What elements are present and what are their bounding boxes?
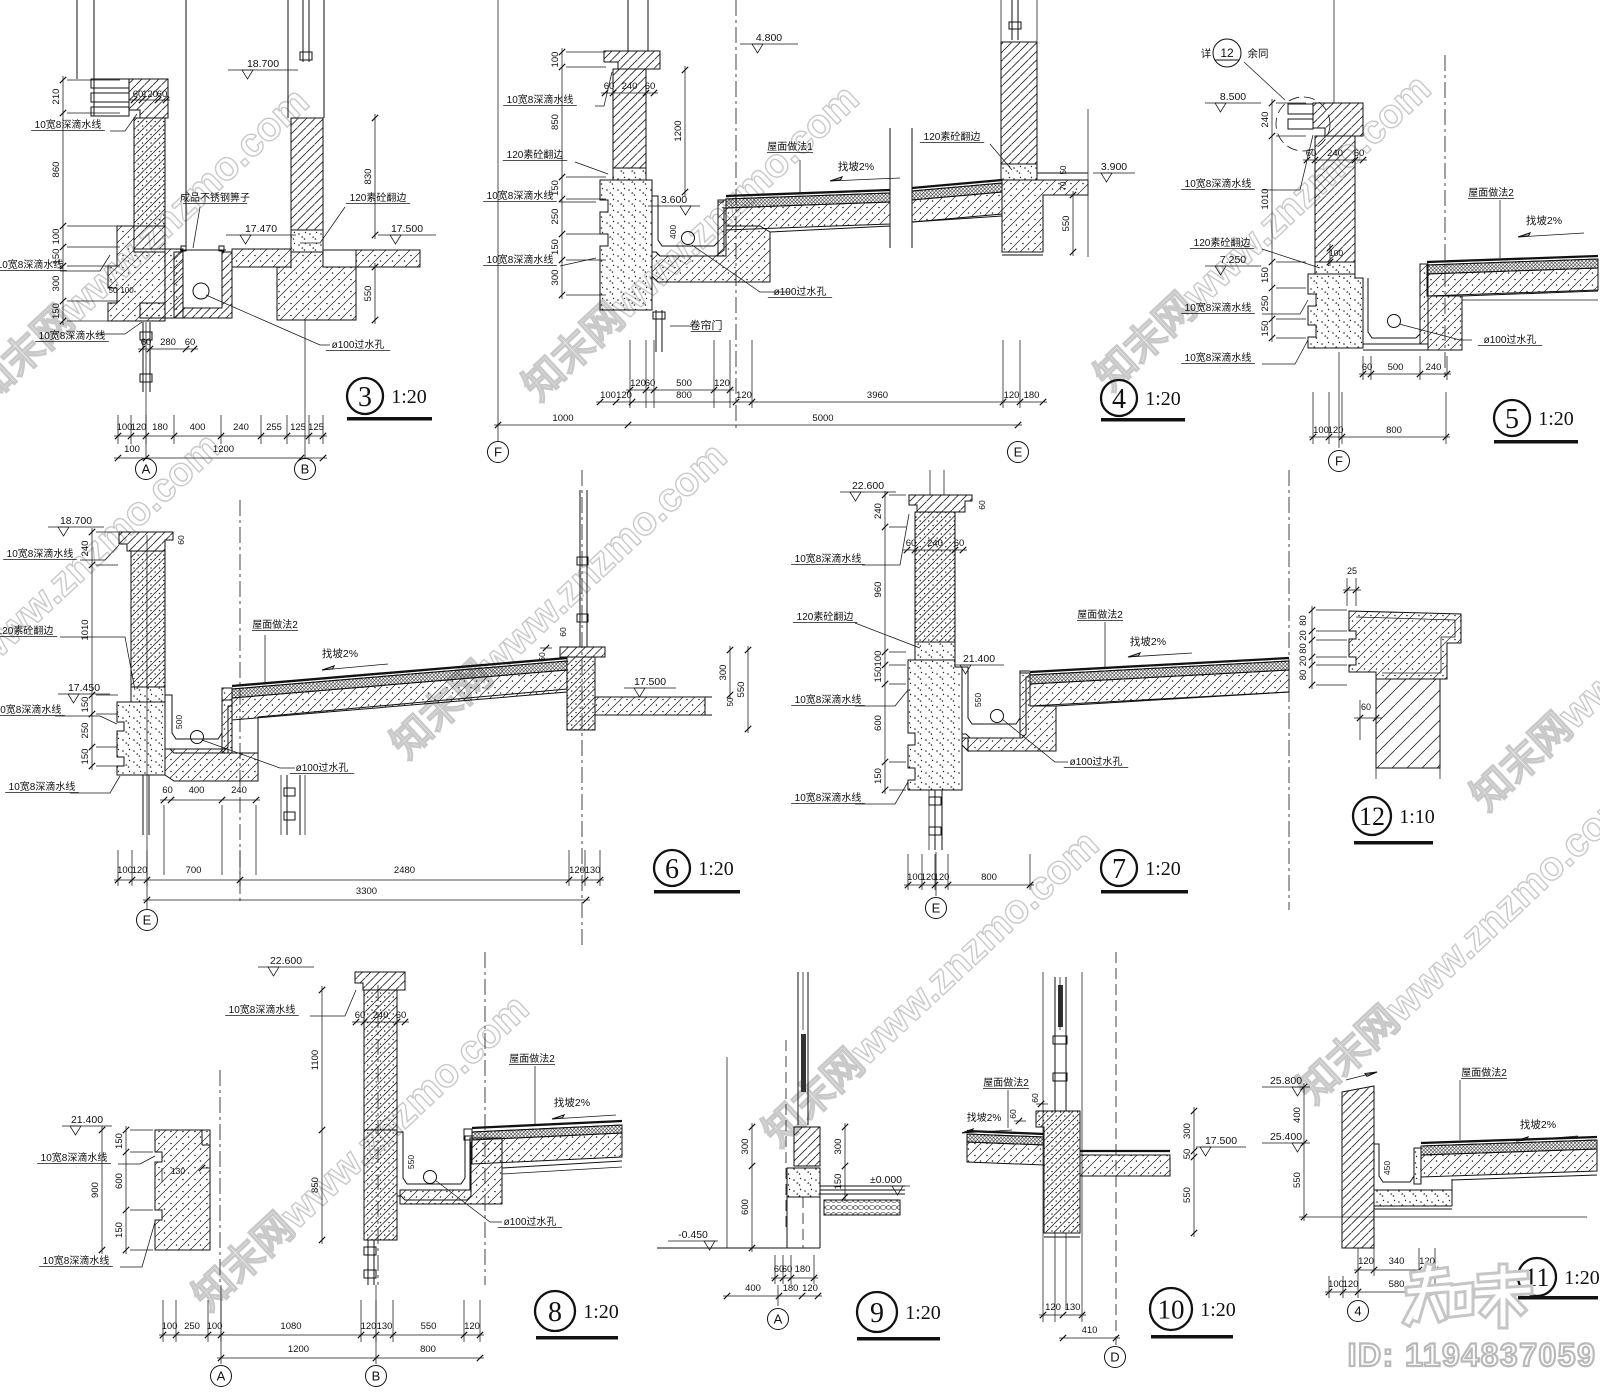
svg-text:600: 600 (873, 715, 884, 731)
parapet coping detail4 (604, 51, 660, 69)
svg-text:400: 400 (190, 422, 206, 433)
right dims d10 (1193, 1107, 1195, 1237)
svg-text:130: 130 (585, 865, 601, 876)
svg-text:10宽8深滴水线: 10宽8深滴水线 (35, 118, 102, 131)
svg-text:A: A (142, 462, 151, 477)
roof slab left part detail4 (726, 190, 890, 196)
svg-text:550: 550 (363, 286, 374, 302)
leader 10宽8深滴水线 detail4 top (595, 72, 612, 106)
svg-text:150: 150 (114, 1133, 125, 1149)
svg-text:120: 120 (630, 378, 646, 389)
svg-text:3960: 3960 (867, 390, 888, 401)
right dims d6 (729, 646, 731, 699)
window mullion above right wall (1011, 0, 1013, 40)
svg-text:240: 240 (873, 503, 884, 519)
svg-text:10宽8深滴水线: 10宽8深滴水线 (1185, 351, 1252, 364)
rolling door rail (655, 310, 657, 352)
svg-text:340: 340 (1389, 1256, 1405, 1267)
svg-text:240: 240 (1426, 362, 1442, 373)
svg-text:400: 400 (745, 1283, 761, 1294)
parapet wall detail3 (134, 118, 165, 226)
axis A d9 (777, 1285, 779, 1306)
svg-text:60: 60 (185, 337, 196, 348)
slab block at gutter (652, 226, 770, 282)
svg-text:21.400: 21.400 (71, 1114, 103, 1126)
svg-text:70: 70 (1059, 181, 1068, 190)
svg-text:18.700: 18.700 (60, 515, 92, 527)
svg-text:F: F (494, 445, 502, 460)
svg-text:120素砼翻边: 120素砼翻边 (0, 624, 53, 637)
svg-text:10宽8深滴水线: 10宽8深滴水线 (795, 552, 862, 565)
svg-text:1:20: 1:20 (1145, 858, 1181, 880)
svg-text:580: 580 (1389, 1279, 1405, 1290)
svg-text:900: 900 (90, 1182, 101, 1198)
svg-text:800: 800 (1386, 425, 1402, 436)
wall d6 (131, 551, 165, 687)
svg-text:50: 50 (726, 697, 735, 706)
left dim chain d6 (91, 528, 93, 770)
detail bubble 6 (654, 850, 690, 886)
svg-text:400: 400 (1292, 1107, 1303, 1123)
detail 3 view (0, 0, 436, 480)
detail bubble 7 (1101, 850, 1137, 886)
svg-text:550: 550 (406, 1155, 416, 1169)
dashed axis d10 (1115, 952, 1117, 1345)
svg-text:100: 100 (550, 52, 561, 68)
right parapet d6 (579, 490, 581, 647)
wall B lower + L block (277, 252, 356, 320)
svg-text:300: 300 (833, 1139, 844, 1155)
svg-text:120: 120 (361, 1321, 377, 1332)
svg-text:120素砼翻边: 120素砼翻边 (350, 191, 407, 204)
svg-text:60: 60 (645, 378, 656, 389)
120素砼翻边 left leader (575, 162, 608, 174)
svg-text:240: 240 (233, 422, 249, 433)
detail bubble 3 (347, 378, 383, 414)
svg-text:800: 800 (676, 390, 692, 401)
svg-text:10宽8深滴水线: 10宽8深滴水线 (39, 329, 106, 342)
svg-text:100: 100 (1329, 248, 1343, 258)
svg-text:850: 850 (310, 1177, 321, 1193)
svg-text:240: 240 (622, 81, 638, 92)
znzmo logo 知末 (1408, 1268, 1528, 1324)
svg-text:600: 600 (740, 1199, 751, 1215)
soffit line d5 (1462, 299, 1598, 301)
right slab d6 (595, 697, 705, 715)
svg-text:1200: 1200 (213, 444, 234, 455)
svg-text:800: 800 (981, 872, 997, 883)
svg-text:150: 150 (80, 749, 91, 765)
svg-text:1:20: 1:20 (698, 858, 734, 880)
small dim 60 120 60 top (130, 99, 170, 101)
svg-text:120素砼翻边: 120素砼翻边 (1194, 236, 1251, 249)
svg-text:800: 800 (420, 1344, 436, 1355)
svg-text:60: 60 (162, 785, 173, 796)
svg-text:550: 550 (973, 693, 983, 707)
left dim chain d7 (884, 491, 886, 794)
svg-text:60: 60 (396, 1010, 407, 1021)
dims bottom d7 (907, 854, 909, 890)
svg-text:100: 100 (120, 286, 134, 295)
svg-text:17.470: 17.470 (245, 223, 277, 235)
svg-text:80: 80 (1298, 670, 1309, 681)
svg-text:10宽8深滴水线: 10宽8深滴水线 (1185, 177, 1252, 190)
svg-text:60: 60 (645, 81, 656, 92)
svg-text:12: 12 (1359, 802, 1385, 831)
parapet coping detail5 (1313, 103, 1363, 136)
dash-dot centerline (735, 0, 737, 430)
leader 滴水线 d8 top (310, 990, 356, 1016)
svg-text:10宽8深滴水线: 10宽8深滴水线 (507, 93, 574, 106)
svg-text:180: 180 (152, 422, 168, 433)
lower wall d6 (117, 702, 165, 775)
svg-text:10宽8深滴水线: 10宽8深滴水线 (487, 189, 554, 202)
svg-text:400: 400 (668, 225, 678, 239)
cornice right lip d12 (1446, 643, 1448, 679)
dashed verticals d8 (219, 1070, 221, 1285)
svg-text:10宽8深滴水线: 10宽8深滴水线 (41, 1151, 108, 1164)
svg-text:5: 5 (1505, 404, 1519, 435)
svg-text:60: 60 (977, 500, 987, 510)
svg-text:700: 700 (186, 865, 202, 876)
floor slab d9 (820, 1185, 905, 1187)
axis E d7 (935, 852, 937, 896)
svg-text:130: 130 (171, 1166, 185, 1176)
svg-text:500: 500 (174, 715, 184, 729)
svg-text:100: 100 (1328, 1279, 1344, 1290)
leader ø100过水孔 (206, 295, 330, 345)
leader 成品不锈钢箅子 (193, 207, 200, 248)
svg-text:120: 120 (616, 390, 632, 401)
svg-text:120: 120 (802, 1283, 818, 1294)
svg-text:80: 80 (1298, 615, 1309, 626)
svg-text:4: 4 (1354, 1304, 1361, 1319)
roof slab d6 (232, 658, 567, 686)
svg-text:60: 60 (1030, 1093, 1040, 1103)
leader 10宽8深滴水线 bottom (95, 322, 142, 334)
bottom dim row1 detail3 (117, 415, 119, 444)
svg-text:120素砼翻边: 120素砼翻边 (507, 148, 564, 161)
svg-text:1:20: 1:20 (1564, 1267, 1600, 1289)
svg-text:120素砼翻边: 120素砼翻边 (924, 130, 981, 143)
leaders d7 (862, 514, 909, 565)
outer verticals d10 (1042, 972, 1044, 1111)
屋面做法2 d11 (1459, 1080, 1461, 1140)
svg-text:60: 60 (1306, 148, 1317, 159)
svg-text:240: 240 (1260, 112, 1271, 128)
bottom dims d9 (774, 1255, 776, 1284)
axis line + bubble F d5 (1338, 352, 1340, 448)
svg-text:10宽8深滴水线: 10宽8深滴水线 (7, 547, 74, 560)
svg-text:280: 280 (160, 337, 176, 348)
svg-text:7: 7 (1112, 854, 1126, 885)
weep hole circle detail3 (193, 283, 209, 299)
svg-text:5000: 5000 (812, 413, 833, 424)
svg-text:E: E (143, 913, 152, 928)
coping d7 (909, 495, 972, 512)
svg-text:1:20: 1:20 (583, 1301, 619, 1323)
small dim 60 240 60 top4 (601, 92, 658, 94)
svg-text:1010: 1010 (1260, 188, 1271, 209)
parapet coping detail3 (129, 79, 168, 118)
svg-text:550: 550 (1182, 1187, 1193, 1203)
svg-text:125: 125 (290, 422, 306, 433)
svg-text:找坡2%: 找坡2% (967, 1111, 1002, 1124)
roof slab right part detail4 (912, 180, 1002, 188)
svg-text:1:20: 1:20 (1200, 1299, 1236, 1321)
lower wall w/ drip notches detail3 (134, 226, 165, 249)
cornice slab d12 (1349, 611, 1461, 679)
axis line A upper verticals (76, 0, 78, 79)
floor slab right of wall E (1002, 180, 1088, 252)
svg-text:150: 150 (114, 1222, 125, 1238)
svg-text:成品不锈钢箅子: 成品不锈钢箅子 (180, 191, 250, 204)
roof slab d5 (1427, 256, 1598, 262)
屋面做法2 d10 (1007, 1090, 1009, 1128)
dim 1200 vertical (684, 66, 686, 196)
left dim chain detail3 (62, 76, 64, 325)
svg-text:150: 150 (873, 667, 884, 683)
dashed line d9 (785, 1040, 787, 1230)
slab bottom step left (770, 226, 890, 232)
svg-text:150: 150 (550, 239, 561, 255)
hatched column d9 (794, 1127, 820, 1166)
slab right of wall B (356, 250, 420, 267)
leader ø100过水孔 detail4 (692, 245, 790, 292)
svg-text:ø100过水孔: ø100过水孔 (332, 338, 385, 351)
gutter channel detail4 (652, 196, 724, 246)
leader 10宽8深滴水线 top (110, 114, 137, 131)
svg-text:250: 250 (80, 723, 91, 739)
gutter channel d5 (1368, 278, 1420, 338)
svg-text:130: 130 (377, 1321, 393, 1332)
svg-text:450: 450 (1382, 1161, 1392, 1175)
detail bubble 12 (1353, 797, 1391, 835)
wall top verticals d7 (929, 470, 931, 495)
svg-text:20: 20 (1298, 630, 1309, 641)
svg-text:10宽8深滴水线: 10宽8深滴水线 (795, 791, 862, 804)
ø100过水孔 d7 (1002, 719, 1068, 762)
svg-text:120: 120 (1004, 390, 1020, 401)
long thin soffit line d11 (1299, 1216, 1587, 1218)
bottom dims d11 (1357, 1248, 1359, 1276)
detail 9 view (657, 972, 941, 1341)
svg-text:240: 240 (927, 538, 943, 549)
svg-text:100: 100 (1313, 425, 1329, 436)
pit walls + floor (174, 252, 232, 318)
svg-text:60: 60 (157, 89, 168, 100)
small dim 60 280 60 bottom (138, 348, 198, 350)
axis E bubble d4 (1008, 442, 1029, 463)
svg-text:6: 6 (665, 854, 679, 885)
svg-text:50: 50 (1182, 1149, 1193, 1160)
svg-text:25.800: 25.800 (1270, 1075, 1302, 1087)
bottom dim row2 detail3 (114, 457, 327, 459)
pit grate 成品不锈钢箅子 (180, 249, 226, 251)
svg-text:850: 850 (550, 114, 561, 130)
outer vertical + ground d9 (726, 1057, 728, 1248)
svg-text:240: 240 (373, 1010, 389, 1021)
svg-text:±0.000: ±0.000 (870, 1174, 902, 1186)
wall d7 (915, 512, 955, 642)
ø100过水孔 d8 (435, 1180, 502, 1222)
svg-text:60: 60 (558, 627, 568, 637)
svg-text:125: 125 (308, 422, 324, 433)
axis F line (497, 0, 499, 442)
svg-text:180: 180 (783, 1283, 799, 1294)
svg-text:240: 240 (1327, 148, 1343, 159)
svg-text:100: 100 (162, 1321, 178, 1332)
svg-text:120素砼翻边: 120素砼翻边 (797, 610, 854, 623)
svg-text:F: F (1335, 454, 1343, 469)
svg-text:10宽8深滴水线: 10宽8深滴水线 (487, 253, 554, 266)
mullion below d8 (367, 1240, 369, 1285)
svg-text:ø100过水孔: ø100过水孔 (296, 761, 349, 774)
gutter d8 (397, 1132, 472, 1184)
svg-text:100: 100 (600, 390, 616, 401)
svg-text:180: 180 (795, 1264, 811, 1275)
dims d9 (751, 1123, 753, 1252)
inner notch low wall (201, 1130, 203, 1145)
svg-text:10宽8深滴水线: 10宽8深滴水线 (229, 1003, 296, 1016)
svg-text:60: 60 (782, 1264, 793, 1275)
floor slab right d10 (1080, 1150, 1170, 1152)
svg-text:D: D (1110, 1350, 1119, 1365)
concrete block d9 (787, 1168, 820, 1197)
svg-text:120: 120 (1045, 1302, 1061, 1313)
wall d11 (1342, 1086, 1374, 1248)
svg-text:300: 300 (51, 276, 62, 292)
svg-text:10宽8深滴水线: 10宽8深滴水线 (1185, 301, 1252, 314)
svg-text:150: 150 (51, 303, 62, 319)
detail 8 view (37, 952, 622, 1387)
svg-text:4: 4 (1112, 384, 1126, 415)
svg-text:60: 60 (1354, 148, 1365, 159)
svg-text:找坡2%: 找坡2% (1526, 214, 1562, 227)
svg-text:120: 120 (714, 378, 730, 389)
coping d6 (119, 532, 173, 551)
svg-text:1200: 1200 (673, 120, 684, 141)
svg-text:60: 60 (1008, 1109, 1018, 1119)
svg-text:100: 100 (51, 229, 62, 245)
svg-text:150: 150 (833, 1174, 844, 1190)
svg-text:120: 120 (569, 865, 585, 876)
svg-text:1010: 1010 (80, 619, 91, 640)
svg-text:找坡2%: 找坡2% (322, 647, 358, 660)
leader 10宽8深滴水线 mid (60, 255, 110, 271)
svg-text:1:20: 1:20 (1145, 388, 1181, 410)
svg-text:3: 3 (358, 382, 372, 413)
svg-text:60: 60 (1362, 362, 1373, 373)
mullion below wall d6 (280, 775, 282, 835)
small dim row d6 (160, 799, 260, 801)
svg-text:60: 60 (1361, 702, 1371, 712)
detail 5 view (1181, 0, 1598, 472)
dim 830 right (374, 114, 376, 239)
svg-text:60: 60 (906, 538, 917, 549)
svg-text:500: 500 (676, 378, 692, 389)
svg-text:120: 120 (1343, 1279, 1359, 1290)
dashed ref circle (1276, 97, 1330, 151)
left dims d11 (1303, 1083, 1305, 1221)
svg-text:E: E (1014, 445, 1023, 460)
axis A bubble (136, 459, 157, 480)
gutter d6 (165, 695, 232, 739)
svg-text:550: 550 (421, 1321, 437, 1332)
svg-text:60: 60 (954, 538, 965, 549)
svg-text:240: 240 (80, 541, 91, 557)
ø100过水孔 d6 (202, 740, 295, 768)
detail bubble 5 (1494, 400, 1530, 436)
svg-text:300: 300 (740, 1139, 751, 1155)
leaders d6 (80, 545, 119, 560)
weep circle d5 (1388, 315, 1401, 328)
mullion below wall A (142, 322, 144, 392)
gutter weep circle (682, 232, 695, 245)
svg-text:255: 255 (266, 422, 282, 433)
break lines (889, 128, 891, 248)
svg-text:ø100过水孔: ø100过水孔 (1070, 755, 1123, 768)
small dim 60 240 60 d5 (1303, 159, 1367, 161)
dim 550 detail4 right (1072, 191, 1074, 256)
屋面做法2 d5 (1499, 200, 1501, 258)
roof slab d11 (1421, 1137, 1597, 1143)
svg-text:ø100过水孔: ø100过水孔 (1484, 333, 1537, 346)
svg-text:180: 180 (1024, 390, 1040, 401)
svg-text:10宽8深滴水线: 10宽8深滴水线 (0, 258, 63, 271)
axis 4 bubble d11 (1357, 1276, 1359, 1298)
dash centerlines d6 (239, 500, 241, 905)
svg-text:ID: 1194837059: ID: 1194837059 (1348, 1337, 1597, 1373)
svg-text:屋面做法2: 屋面做法2 (983, 1076, 1029, 1089)
svg-text:20: 20 (1298, 656, 1309, 667)
翻边 d7 (915, 642, 955, 660)
svg-text:250: 250 (184, 1321, 200, 1332)
svg-text:240: 240 (231, 785, 247, 796)
svg-text:100: 100 (117, 865, 133, 876)
wall B upper lines (287, 0, 289, 118)
svg-text:25.400: 25.400 (1270, 1131, 1302, 1143)
svg-text:2480: 2480 (394, 865, 415, 876)
svg-text:150: 150 (1260, 267, 1271, 283)
svg-text:屋面做法2: 屋面做法2 (509, 1052, 555, 1065)
detail 4 view (483, 0, 1185, 463)
dash centerline d5 (1444, 55, 1446, 375)
svg-text:屋面做法2: 屋面做法2 (1461, 1066, 1507, 1079)
low wall left d8 (155, 1130, 210, 1250)
svg-text:3.600: 3.600 (661, 194, 687, 206)
parapet wall detail4 (613, 69, 646, 168)
svg-text:120: 120 (142, 89, 158, 100)
slope arrow top d11 (1346, 1072, 1377, 1080)
svg-text:卷帘门: 卷帘门 (690, 318, 723, 332)
svg-text:7.250: 7.250 (1220, 254, 1246, 266)
block at gutter d7 (968, 673, 1056, 751)
svg-text:找坡2%: 找坡2% (1520, 1118, 1556, 1131)
svg-text:屋面做法2: 屋面做法2 (1077, 608, 1123, 621)
svg-text:17.500: 17.500 (1205, 1135, 1237, 1147)
svg-text:8.500: 8.500 (1220, 91, 1246, 103)
leader 卷帘门 (670, 325, 690, 327)
svg-text:1:20: 1:20 (391, 386, 427, 408)
svg-text:-0.450: -0.450 (678, 1229, 708, 1241)
detail bubble 11 (1518, 1258, 1556, 1296)
block at gutter d6 (165, 749, 258, 781)
mullion below d7 (928, 790, 930, 850)
svg-text:150: 150 (80, 697, 91, 713)
svg-text:找坡2%: 找坡2% (838, 160, 874, 173)
bottom dims d5 (1362, 356, 1364, 380)
